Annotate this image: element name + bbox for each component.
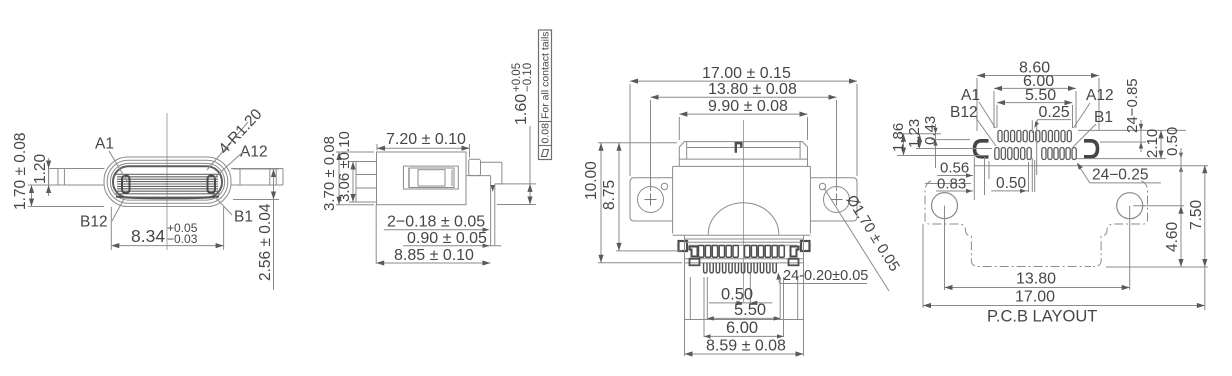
tongue contact lines: [117, 176, 218, 178]
svg-text:P.C.B LAYOUT: P.C.B LAYOUT: [987, 308, 1097, 326]
lower contact rail: [685, 258, 804, 260]
svg-text:B12: B12: [80, 214, 108, 231]
svg-text:1.60: 1.60: [513, 94, 530, 125]
right mounting hole: [1117, 193, 1143, 219]
svg-text:A1: A1: [961, 87, 980, 104]
rear step outline: [481, 161, 502, 163]
lower contact teeth: [704, 263, 707, 273]
svg-text:0.43: 0.43: [922, 116, 939, 145]
shell outer ring: [104, 157, 231, 207]
center gap ticks 0.25: [1031, 120, 1033, 133]
dim 8.34 +0.05/-0.03: [110, 207, 112, 250]
left flange: [630, 178, 673, 221]
latch window outer: [403, 166, 458, 189]
dim 7.50: [1204, 165, 1206, 310]
dim 2.10: [1076, 158, 1166, 160]
label 4-R1.20: [207, 122, 248, 170]
left screw hole: [638, 187, 664, 213]
svg-text:A12: A12: [240, 144, 268, 161]
feature control frame: 0.08 For all contact tails: [539, 30, 552, 160]
dim 0.90±0.05: [403, 245, 501, 247]
dim 3.06±0.10: [349, 161, 356, 163]
body outline: [377, 152, 467, 205]
shield mid band: [678, 159, 680, 166]
dim 0.50 view3: [749, 274, 751, 304]
latch window inner: [418, 170, 445, 186]
dim 1.86: [899, 133, 941, 135]
svg-text:A12: A12: [1086, 87, 1114, 104]
svg-text:2.56 ± 0.04: 2.56 ± 0.04: [257, 203, 274, 281]
dome base line: [673, 234, 811, 236]
view 4: P.C.B layout: [890, 60, 1208, 326]
svg-text:5.50: 5.50: [1025, 87, 1056, 104]
svg-text:0.50: 0.50: [1164, 127, 1181, 156]
svg-text:8.34: 8.34: [131, 226, 165, 246]
svg-text:0.08: 0.08: [540, 123, 552, 144]
svg-text:8.59 ± 0.08: 8.59 ± 0.08: [706, 338, 786, 355]
dim 0.50 right: [974, 165, 1208, 167]
right shield slot pad: [1084, 141, 1098, 157]
dim 10.00: [598, 142, 677, 144]
left mounting hole: [932, 193, 958, 219]
svg-text:9.90 ± 0.08: 9.90 ± 0.08: [708, 98, 788, 115]
slot bottom emphasis: [116, 197, 219, 199]
housing top edge: [685, 238, 804, 240]
svg-text:5.50: 5.50: [734, 301, 766, 319]
dim dia 1.70±0.05: [824, 188, 889, 291]
tongue left end cap: [122, 176, 130, 194]
left shield crimp bracket: [690, 247, 698, 257]
svg-text:0.83: 0.83: [937, 176, 966, 193]
svg-text:A1: A1: [95, 136, 114, 153]
left shield slot pad: [975, 141, 989, 157]
svg-text:0.50: 0.50: [996, 175, 1027, 192]
svg-text:0.25: 0.25: [1039, 104, 1070, 121]
footprint outline right: [1091, 181, 1148, 267]
svg-text:7.50: 7.50: [1188, 199, 1205, 230]
svg-text:7.20 ± 0.10: 7.20 ± 0.10: [386, 131, 466, 148]
upper pad row (A1-A12): [998, 130, 1002, 141]
svg-text:B1: B1: [234, 209, 253, 226]
dim 8.59±0.08: [684, 320, 686, 357]
svg-text:13.80: 13.80: [1016, 271, 1056, 288]
housing bottom: [685, 319, 804, 321]
lower pad row (B12-B1): [995, 148, 999, 160]
dim 24-0.20±0.05: [780, 283, 868, 285]
svg-text:1.70 ± 0.08: 1.70 ± 0.08: [12, 133, 29, 210]
dim 0.25: [1038, 119, 1071, 121]
solder leg: [490, 176, 492, 246]
dim 4.60: [1133, 205, 1184, 207]
dim 1.60 +0.05/-0.10: [497, 183, 536, 185]
svg-text:6.00: 6.00: [726, 319, 758, 337]
dim 7.20±0.10: [376, 144, 378, 151]
shell ring 3: [110, 163, 224, 200]
tongue window top edge: [116, 173, 220, 175]
svg-text:24-0.20±0.05: 24-0.20±0.05: [783, 268, 868, 284]
dim 9.90±0.08: [678, 117, 680, 140]
dim 1.23: [916, 148, 992, 150]
dim 0.56: [937, 175, 973, 177]
svg-text:13.80 ± 0.08: 13.80 ± 0.08: [708, 81, 797, 98]
dim 3.70±0.08: [336, 151, 374, 153]
svg-text:17.00: 17.00: [1015, 289, 1055, 306]
center line: [166, 113, 168, 250]
dim 17.00±0.15: [629, 84, 631, 176]
dim 2-0.18±0.05: [384, 229, 488, 231]
svg-text:For all contact tails: For all contact tails: [540, 31, 552, 119]
shell ring 2: [107, 160, 228, 203]
svg-text:0.56: 0.56: [940, 160, 969, 177]
footprint outline left: [925, 181, 1091, 267]
dim 6.00 view3: [703, 277, 705, 337]
right pilot hole: [819, 183, 825, 189]
right screw hole: [824, 187, 850, 213]
dim 2.56±0.04: [233, 168, 279, 170]
dim 17.00 pcb: [922, 224, 924, 308]
center line: [743, 120, 745, 302]
center orientation mark: [736, 143, 742, 153]
svg-text:8.85 ± 0.10: 8.85 ± 0.10: [394, 247, 474, 264]
latch window mid: [409, 168, 454, 188]
svg-text:17.00 ± 0.15: 17.00 ± 0.15: [702, 65, 791, 82]
left mounting leg: [49, 168, 105, 170]
svg-text:B1: B1: [1094, 109, 1113, 126]
svg-text:24−0.25: 24−0.25: [1092, 167, 1148, 184]
view 2: connector side view: [321, 30, 552, 266]
right side tab: [801, 241, 810, 251]
svg-text:B12: B12: [950, 104, 978, 121]
svg-text:1.20: 1.20: [32, 153, 49, 184]
dome: [708, 203, 779, 235]
dim 13.80±0.08: [650, 100, 652, 191]
svg-text:1.86: 1.86: [890, 123, 907, 152]
housing side walls: [684, 235, 686, 320]
dim 5.50 view3: [706, 277, 708, 319]
upper contact rail: [685, 241, 801, 243]
body sides: [672, 166, 674, 233]
right mounting leg: [231, 168, 283, 170]
svg-text:4.60: 4.60: [1164, 221, 1181, 252]
dim 8.85±0.10: [375, 205, 377, 264]
upper contact teeth: [699, 246, 704, 258]
dim 6.00 view4: [993, 91, 995, 128]
left pilot hole: [661, 183, 667, 189]
svg-text:1.23: 1.23: [906, 119, 923, 148]
dim 8.60: [976, 78, 978, 131]
lower rail end blocks: [690, 259, 700, 266]
svg-text:2.10: 2.10: [1144, 129, 1161, 158]
front bezel: [356, 162, 377, 203]
tongue right end cap: [208, 176, 216, 194]
svg-text:24−0.85: 24−0.85: [1124, 78, 1141, 133]
svg-text:3.06 ±0.10: 3.06 ±0.10: [336, 131, 353, 202]
dim 1.20: [48, 158, 50, 196]
top shield section: [679, 142, 807, 160]
dim 0.43: [931, 139, 970, 141]
svg-text:−0.10: −0.10: [522, 63, 534, 92]
svg-text:8.75: 8.75: [601, 180, 618, 210]
shell inner slot: [113, 166, 222, 197]
dim 13.80 pcb: [944, 206, 946, 290]
right shield crimp bracket: [791, 247, 799, 257]
dim 24-0.25: [1090, 182, 1161, 184]
view 3: connector rear view: [583, 65, 903, 357]
svg-text:0.90 ± 0.05: 0.90 ± 0.05: [407, 230, 487, 247]
svg-text:2−0.18 ± 0.05: 2−0.18 ± 0.05: [387, 214, 485, 231]
view 1: connector front (mating face) view: [12, 106, 283, 290]
dim 0.83: [936, 190, 973, 192]
dim 0.50 pcb: [991, 190, 1028, 192]
rear top bump: [469, 159, 481, 175]
left side tab: [679, 241, 688, 251]
svg-text:−0.03: −0.03: [167, 232, 198, 246]
right flange: [810, 178, 857, 221]
tongue window bottom edge: [116, 193, 220, 195]
dim 5.50 view4: [996, 105, 998, 128]
dim 1.70±0.08: [28, 184, 48, 186]
dim 24-0.85: [1078, 129, 1186, 131]
dim 8.75: [616, 250, 682, 252]
svg-text:10.00: 10.00: [583, 161, 600, 200]
